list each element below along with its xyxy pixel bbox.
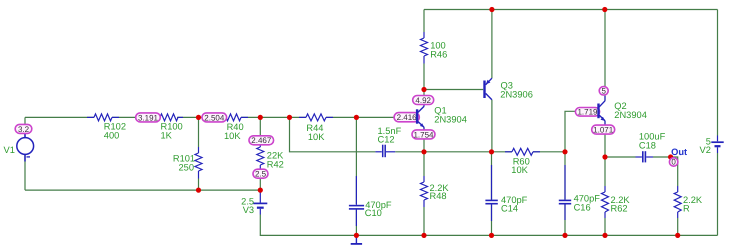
wire R46 column <box>423 10 425 90</box>
svg-text:C12: C12 <box>378 135 395 145</box>
svg-text:2.504: 2.504 <box>204 113 225 122</box>
resistor R48 <box>421 176 428 207</box>
svg-text:V3: V3 <box>243 205 254 215</box>
svg-text:2.467: 2.467 <box>251 136 272 145</box>
node voltage 1.754 <box>412 130 435 139</box>
wire Q2 emitter to out node <box>605 121 678 186</box>
svg-text:R62: R62 <box>611 204 628 214</box>
node ground bus R48 junction <box>421 233 426 238</box>
svg-text:2N3904: 2N3904 <box>434 115 467 125</box>
capacitor C18 <box>636 151 654 162</box>
svg-text:R48: R48 <box>430 191 447 201</box>
node ground bus C16 junction <box>562 233 567 238</box>
node voltage 1.719 <box>575 108 599 117</box>
node ground bus R62 junction <box>602 233 607 238</box>
svg-text:2.5: 2.5 <box>255 170 267 179</box>
node voltage 2.416 <box>394 113 419 123</box>
wire C12 branch riser <box>290 117 425 151</box>
svg-text:3.191: 3.191 <box>138 113 159 122</box>
node voltage 1.071 <box>592 125 615 134</box>
svg-text:0: 0 <box>671 158 676 167</box>
wire top rail <box>424 9 718 11</box>
node voltage 0 at Out <box>669 158 678 167</box>
resistor R101 <box>195 147 202 179</box>
battery V3 <box>253 190 267 214</box>
node voltage 2.5 <box>253 169 268 178</box>
resistor R44 <box>299 114 333 121</box>
svg-text:10K: 10K <box>224 131 241 141</box>
resistor R100 <box>153 114 183 121</box>
wire R42 column <box>259 117 261 190</box>
capacitor C14 <box>485 165 497 221</box>
svg-text:2.416: 2.416 <box>397 113 418 122</box>
node Q3 collector / C14 junction <box>489 149 494 154</box>
node R44 right / C10 junction <box>354 115 359 120</box>
capacitor C10 <box>349 176 364 226</box>
node rail Q2 junction <box>602 7 607 12</box>
wire Q1 emitter vertical <box>423 127 425 152</box>
svg-text:1.719: 1.719 <box>577 108 598 117</box>
svg-text:R: R <box>683 204 690 214</box>
node ground bus C14 junction <box>489 233 494 238</box>
svg-text:3.2: 3.2 <box>18 125 30 134</box>
node rail Q3 junction <box>489 7 494 12</box>
svg-text:C18: C18 <box>639 141 656 151</box>
node voltage 3.191 <box>136 113 161 122</box>
svg-text:4.92: 4.92 <box>415 96 431 105</box>
wire Q3 base <box>424 89 483 91</box>
node Out junction <box>668 154 673 159</box>
wire R48 column <box>423 152 425 236</box>
svg-text:C16: C16 <box>574 202 591 212</box>
resistor R62 <box>602 186 609 218</box>
wire C14 column <box>491 152 493 236</box>
wire R column below <box>677 218 679 235</box>
wire C10 column <box>355 117 357 235</box>
node R60/C16 junction <box>562 149 567 154</box>
node R100/R101 junction <box>196 115 201 120</box>
capacitor C12 <box>375 145 395 158</box>
svg-text:250: 250 <box>178 162 194 172</box>
resistor R <box>674 186 681 218</box>
node R46/Q1 collector junction <box>421 87 426 92</box>
wire R62 column below <box>604 157 606 235</box>
transistor Q2 <box>599 96 606 126</box>
svg-text:10K: 10K <box>308 132 325 142</box>
node voltage 2.504 <box>202 113 227 122</box>
wire Q3 collector to row 152 <box>491 100 493 152</box>
wire bottom left row <box>25 189 260 191</box>
wire Q1 collector vertical <box>423 90 425 107</box>
svg-text:2N3906: 2N3906 <box>500 89 533 99</box>
voltage source V1 <box>17 132 34 162</box>
svg-text:R42: R42 <box>267 159 284 169</box>
wire C16 column and Q2 base riser <box>565 111 597 235</box>
wire Q2 collector to rail <box>604 10 606 101</box>
svg-text:Out: Out <box>671 147 687 157</box>
svg-text:400: 400 <box>104 130 120 140</box>
node ground bus R junction <box>675 233 680 238</box>
node voltage 2.467 <box>249 136 274 145</box>
battery V2 <box>711 136 723 154</box>
svg-text:1K: 1K <box>161 130 173 140</box>
ground <box>351 235 362 244</box>
svg-text:1.754: 1.754 <box>413 130 434 139</box>
node voltage 3.2 <box>15 124 32 133</box>
svg-text:1.071: 1.071 <box>593 126 614 135</box>
transistor Q1 <box>417 101 424 133</box>
svg-text:V1: V1 <box>4 145 15 155</box>
svg-text:C10: C10 <box>365 208 382 218</box>
wire Q3 emitter to rail <box>491 10 493 79</box>
resistor R60 <box>505 148 540 155</box>
svg-text:10K: 10K <box>511 165 528 175</box>
wire main signal row <box>25 116 416 118</box>
node R40/R42 junction <box>258 115 263 120</box>
transistor Q3 <box>485 78 492 100</box>
node voltage 4.92 <box>413 96 434 105</box>
svg-text:2N3904: 2N3904 <box>614 110 647 120</box>
node V3 top junction <box>258 188 263 193</box>
svg-text:V2: V2 <box>700 145 711 155</box>
resistor R46 <box>421 32 428 64</box>
wire ground bus <box>260 215 717 236</box>
wire right side V2 column <box>717 10 719 236</box>
node voltage 5 at Q2 collector <box>599 87 608 96</box>
node Q2 emitter junction <box>602 154 607 159</box>
node R101 bottom junction <box>196 188 201 193</box>
resistor R42 <box>257 141 264 172</box>
node ground bus C10 junction <box>354 233 359 238</box>
wire V1 column <box>24 117 26 190</box>
wire emitter row 152 <box>424 151 565 153</box>
resistor R40 <box>220 114 248 121</box>
svg-text:C14: C14 <box>501 204 518 214</box>
wire R101 column <box>198 117 200 190</box>
node R44 left junction <box>287 115 292 120</box>
svg-text:5: 5 <box>601 87 606 96</box>
capacitor C16 <box>559 165 571 220</box>
node Q1 emitter junction <box>421 149 426 154</box>
resistor R102 <box>87 114 119 121</box>
svg-text:R46: R46 <box>430 50 447 60</box>
